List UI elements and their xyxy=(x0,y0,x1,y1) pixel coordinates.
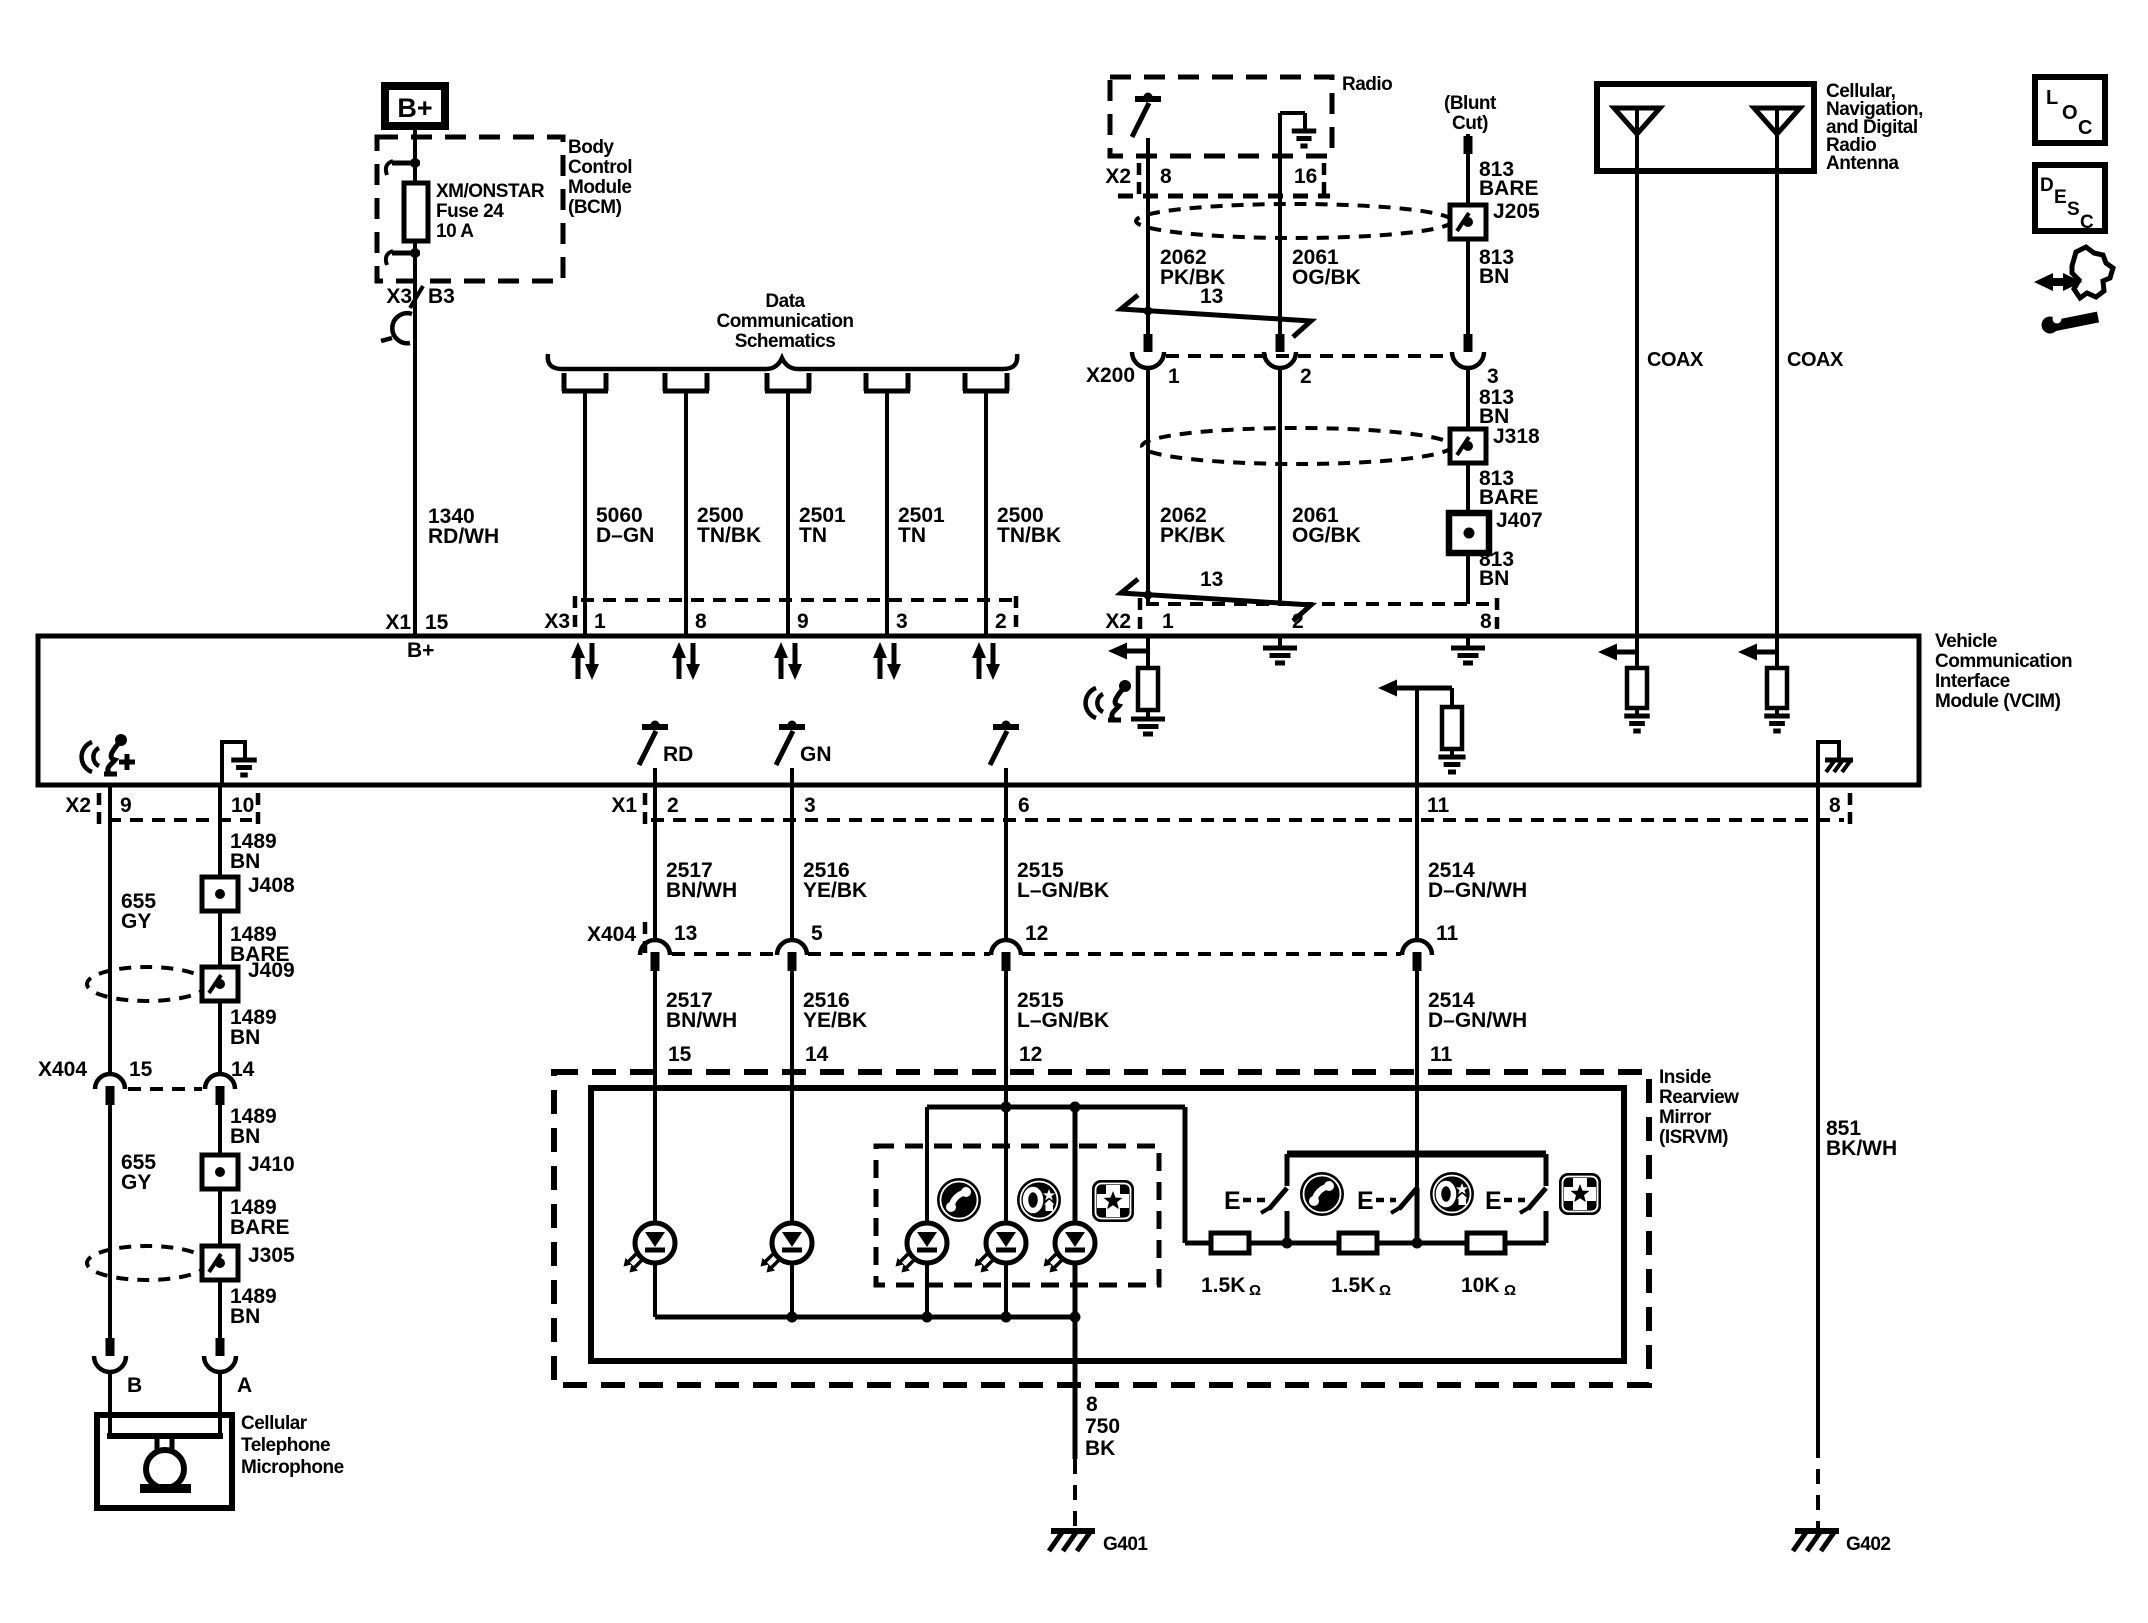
X2 label xyxy=(1105,610,1131,633)
Cellular Telephone Microphone box xyxy=(97,1415,232,1508)
icon cross 1 xyxy=(1092,1180,1134,1222)
indicator dashed box xyxy=(876,1146,1159,1285)
arrows in/out pin 3 xyxy=(873,642,901,680)
radio output symbol xyxy=(1132,93,1161,335)
splice ellipse 1 xyxy=(1136,204,1452,238)
Vehicle Communication Interface Module (VCIM) box xyxy=(38,636,1919,785)
X2 bottom label xyxy=(65,794,91,817)
radio pin 16 label xyxy=(1294,165,1317,188)
svg-text:BN/WH: BN/WH xyxy=(666,1009,737,1032)
icon feed right drop xyxy=(1073,1107,1078,1223)
wire 2516 YE/BK upper xyxy=(790,785,794,941)
wire 2517 BN/WH upper xyxy=(653,785,657,941)
VCIM pin X3-9 label xyxy=(797,610,809,633)
svg-text:(BCM): (BCM) xyxy=(568,197,622,218)
Body Control Module dashed box xyxy=(377,137,563,281)
antenna box xyxy=(1597,84,1814,171)
wire label 2501 TN xyxy=(898,504,945,547)
resistor 10K xyxy=(1467,1233,1505,1253)
svg-text:X3: X3 xyxy=(544,610,570,633)
switch stub 1 upper xyxy=(1285,1154,1290,1186)
wire 813 BARE blunt cut xyxy=(1466,134,1470,334)
wire X1-11 inside VCIM xyxy=(1415,688,1419,785)
navigate icon xyxy=(2034,247,2113,334)
svg-text:1.5K: 1.5K xyxy=(1331,1274,1375,1297)
pin 10 tick xyxy=(256,793,261,827)
wire 2500 TN/BK xyxy=(984,391,988,636)
wire 2514 D–GN/WH upper xyxy=(1415,785,1419,941)
svg-text:8: 8 xyxy=(1160,165,1172,188)
BCM label xyxy=(568,137,632,218)
label B xyxy=(127,1374,142,1397)
twisted leads 13 a xyxy=(1121,285,1311,337)
svg-text:Microphone: Microphone xyxy=(241,1457,344,1478)
X404 mid label xyxy=(587,923,636,946)
connector X404-12 xyxy=(991,940,1021,1074)
svg-text:9: 9 xyxy=(797,610,809,633)
wire from B+ to fuse xyxy=(413,126,417,166)
switch stub 3 upper xyxy=(1544,1154,1549,1186)
ISRVM pin 11 label xyxy=(1430,1043,1453,1066)
svg-text:TN: TN xyxy=(898,524,926,547)
LED 1 xyxy=(624,1223,676,1317)
wire label 813 BN c xyxy=(1479,548,1514,590)
LED 3 xyxy=(896,1223,948,1317)
connector X404-14 xyxy=(205,1074,235,1338)
svg-text:B3: B3 xyxy=(428,285,455,308)
svg-text:E: E xyxy=(1357,1187,1374,1215)
svg-text:J305: J305 xyxy=(248,1244,295,1267)
wire label 1489 BN c xyxy=(230,1105,277,1148)
VCIM ground near X1-11 xyxy=(1438,757,1465,772)
pin 9 label xyxy=(120,794,132,817)
VCIM ground at X2-2 xyxy=(1263,636,1297,663)
wire label 1340 RD/WH xyxy=(428,505,499,548)
arrows in/out pin 2 xyxy=(972,642,1000,680)
connector A xyxy=(204,1338,236,1418)
svg-text:X3: X3 xyxy=(386,285,412,308)
X3 dashed row xyxy=(581,598,1012,602)
svg-text:PK/BK: PK/BK xyxy=(1160,524,1225,547)
splice ellipse 2 xyxy=(1142,428,1452,464)
connector X404-15 xyxy=(95,1074,125,1338)
X200 dashed row xyxy=(1166,354,1450,358)
svg-text:J205: J205 xyxy=(1493,200,1540,223)
wire label 2061 OG/BK b xyxy=(1292,504,1361,547)
switch onstar xyxy=(1357,1187,1417,1215)
wire label 851 BK/WH xyxy=(1826,1117,1897,1160)
X3 tick xyxy=(573,596,578,631)
label G402 xyxy=(1846,1534,1890,1555)
svg-text:11: 11 xyxy=(1436,922,1459,945)
svg-text:B: B xyxy=(127,1374,142,1397)
data link connector fork at x686 xyxy=(663,373,709,391)
svg-text:X404: X404 xyxy=(38,1058,87,1081)
icon phone 1 xyxy=(937,1178,981,1222)
pin 8 tick xyxy=(1848,793,1853,827)
svg-text:2: 2 xyxy=(1300,365,1312,388)
svg-text:GY: GY xyxy=(121,1171,151,1194)
icon cross 2 xyxy=(1559,1173,1601,1215)
VCIM resistor at X2-1 xyxy=(1138,636,1158,719)
X3 connector label xyxy=(544,610,570,633)
VCIM pin X1 15 labels xyxy=(385,611,448,634)
X404 left dashed row xyxy=(128,1087,202,1091)
icon onstar 1 xyxy=(1017,1178,1061,1222)
wire label 813 BARE xyxy=(1479,158,1539,200)
svg-text:Ω: Ω xyxy=(1249,1282,1261,1299)
svg-text:J409: J409 xyxy=(248,959,295,982)
splice ellipse J409 xyxy=(87,967,207,1001)
wire label 1489 BN d xyxy=(230,1285,277,1328)
svg-text:13: 13 xyxy=(1200,568,1223,591)
LOC box xyxy=(2035,77,2105,143)
VCIM pin X3-1 label xyxy=(594,610,606,633)
ISRVM label xyxy=(1659,1067,1739,1148)
label J409 xyxy=(248,959,295,982)
svg-text:6: 6 xyxy=(1018,794,1030,817)
microphone symbol xyxy=(107,1418,223,1493)
BCM pin labels X3 B3 xyxy=(386,285,455,308)
svg-text:10 A: 10 A xyxy=(436,221,474,242)
svg-text:X2: X2 xyxy=(1105,165,1131,188)
VCIM phone icon xyxy=(1086,680,1131,720)
svg-text:A: A xyxy=(237,1374,252,1397)
VCIM arrow at X1-11 xyxy=(1378,680,1452,697)
X404 pin 12 label xyxy=(1025,922,1048,945)
ISRVM pin 14 label xyxy=(805,1043,829,1066)
splice J205 xyxy=(1450,205,1486,239)
wire label 813 BARE b xyxy=(1479,467,1539,509)
VCIM cellular voice arrow xyxy=(1108,643,1148,660)
svg-text:TN/BK: TN/BK xyxy=(697,524,761,547)
svg-text:TN: TN xyxy=(799,524,827,547)
svg-text:COAX: COAX xyxy=(1647,349,1704,371)
svg-text:13: 13 xyxy=(674,922,697,945)
label J318 xyxy=(1493,425,1540,448)
X404 pin 14 label xyxy=(231,1058,255,1081)
svg-text:D–GN: D–GN xyxy=(596,524,654,547)
label 10K xyxy=(1461,1274,1516,1299)
svg-text:BN: BN xyxy=(1479,567,1509,590)
radio pin 8 label xyxy=(1160,165,1172,188)
wire label 2061 OG/BK a xyxy=(1292,246,1361,289)
svg-text:B+: B+ xyxy=(397,93,432,123)
svg-text:2: 2 xyxy=(995,610,1007,633)
svg-text:9: 9 xyxy=(120,794,132,817)
svg-text:750: 750 xyxy=(1085,1415,1120,1438)
svg-text:8: 8 xyxy=(1480,610,1492,633)
svg-text:C: C xyxy=(2080,212,2094,233)
wire 2501 TN xyxy=(786,391,790,636)
svg-text:1: 1 xyxy=(1162,610,1174,633)
svg-text:15: 15 xyxy=(129,1058,153,1081)
svg-text:3: 3 xyxy=(896,610,908,633)
DESC box xyxy=(2035,165,2105,233)
svg-text:TN/BK: TN/BK xyxy=(997,524,1061,547)
svg-text:OG/BK: OG/BK xyxy=(1292,266,1361,289)
switch stub 1 lower xyxy=(1285,1211,1290,1243)
wire 1489 BN b xyxy=(218,1001,222,1075)
microphone label xyxy=(241,1413,344,1478)
svg-text:BN: BN xyxy=(230,1125,260,1148)
pin 11 label xyxy=(1427,794,1450,817)
svg-text:2: 2 xyxy=(1292,610,1304,633)
wire label 655 GY b xyxy=(121,1151,156,1194)
X2 tick xyxy=(1138,598,1143,632)
connector X404-11 xyxy=(1402,940,1432,1074)
svg-text:Radio: Radio xyxy=(1342,74,1392,95)
switch phone xyxy=(1224,1187,1287,1215)
VCIM internal connector GN xyxy=(776,721,832,786)
label A xyxy=(237,1374,252,1397)
wire 2501 TN xyxy=(885,391,889,636)
wire 2515 L–GN/BK upper xyxy=(1004,785,1008,941)
wire label 1489 BN a xyxy=(230,830,277,873)
svg-text:1: 1 xyxy=(594,610,606,633)
LED return bus xyxy=(655,1312,1081,1323)
svg-text:11: 11 xyxy=(1427,794,1450,817)
pin 8 label xyxy=(1829,794,1841,817)
data link connector fork at x585 xyxy=(562,373,608,391)
svg-text:BARE: BARE xyxy=(1479,177,1539,200)
switch stub 2 lower xyxy=(1415,1188,1420,1243)
wire into ISRVM 11 xyxy=(1415,1074,1419,1188)
svg-text:X1: X1 xyxy=(611,794,637,817)
svg-text:8: 8 xyxy=(1829,794,1841,817)
svg-text:14: 14 xyxy=(805,1043,829,1066)
icon onstar 2 xyxy=(1430,1172,1474,1216)
svg-text:XM/ONSTAR: XM/ONSTAR xyxy=(436,181,545,202)
svg-text:X2: X2 xyxy=(65,794,91,817)
icon feed bus xyxy=(927,1102,1185,1113)
svg-text:Fuse 24: Fuse 24 xyxy=(436,201,504,222)
Data Communication Schematics label xyxy=(716,291,853,352)
data link connector fork at x986 xyxy=(963,373,1009,391)
svg-text:BN: BN xyxy=(230,1026,260,1049)
svg-text:11: 11 xyxy=(1430,1043,1453,1066)
arrows in/out pin 1 xyxy=(571,642,599,680)
svg-text:(Blunt: (Blunt xyxy=(1444,93,1497,114)
data link connector fork at x887 xyxy=(864,373,910,391)
connector X200-2 xyxy=(1264,334,1296,604)
BCM connector hook xyxy=(381,313,412,343)
icon phone 2 xyxy=(1300,1172,1344,1216)
svg-text:J410: J410 xyxy=(248,1153,295,1176)
splice J410 xyxy=(202,1155,238,1189)
wire label 2514 D–GN/WH a xyxy=(1428,859,1527,902)
label J410 xyxy=(248,1153,295,1176)
wire 1489 BARE a xyxy=(218,911,222,967)
X3 tick right xyxy=(1014,596,1019,631)
svg-text:E: E xyxy=(1224,1187,1241,1215)
label B+ at pin 15 xyxy=(407,639,434,662)
ISRVM pin 15 label xyxy=(668,1043,692,1066)
svg-text:GN: GN xyxy=(800,743,832,766)
svg-text:BN/WH: BN/WH xyxy=(666,879,737,902)
VCIM coax resistor x1777 xyxy=(1767,636,1787,716)
resistor 1.5K a xyxy=(1211,1233,1249,1253)
svg-text:Vehicle: Vehicle xyxy=(1935,631,1997,652)
ground G402 xyxy=(1793,1531,1839,1551)
svg-text:10K: 10K xyxy=(1461,1274,1500,1297)
LED 2 xyxy=(761,1223,813,1317)
svg-text:15: 15 xyxy=(425,611,449,634)
wire label 2516 YE/BK a xyxy=(803,859,867,902)
BCM pin tick xyxy=(410,286,423,308)
X404 mid tick xyxy=(643,922,648,956)
wire label 1489 BARE a xyxy=(230,923,290,966)
svg-text:L: L xyxy=(2046,87,2058,109)
svg-text:D–GN/WH: D–GN/WH xyxy=(1428,1009,1527,1032)
COAX label 2 xyxy=(1787,349,1844,371)
brace xyxy=(548,354,1017,369)
wire label 813 BN b xyxy=(1479,386,1514,428)
wire label 2515 L–GN/BK b xyxy=(1017,989,1109,1032)
X200 pin labels xyxy=(1168,365,1499,388)
connector X200-1 xyxy=(1132,334,1164,604)
VCIM resistor near X1-11 xyxy=(1442,688,1462,757)
radio X2 tick xyxy=(1137,163,1142,197)
wire label 2517 BN/WH a xyxy=(666,859,737,902)
X2 bottom dashed row xyxy=(108,818,252,822)
twisted leads 13 b xyxy=(1121,568,1311,621)
splice J409 xyxy=(202,967,238,1001)
wire 1489 BN upper xyxy=(218,785,222,877)
VCIM microphone icon xyxy=(82,734,135,774)
X2 tick right xyxy=(1495,598,1500,632)
fuse F24 top contact xyxy=(386,158,420,175)
wire label 2500 TN/BK xyxy=(697,504,761,547)
svg-text:J318: J318 xyxy=(1493,425,1540,448)
svg-text:GY: GY xyxy=(121,910,151,933)
wire 2500 TN/BK xyxy=(684,391,688,636)
fuse XM/ONSTAR Fuse 24 10A body xyxy=(404,163,428,253)
ground G401 xyxy=(1049,1531,1095,1551)
arrows in/out pin 9 xyxy=(774,642,802,680)
wire label 750 BK xyxy=(1085,1415,1120,1460)
X404 pin 15 label xyxy=(129,1058,153,1081)
svg-text:1.5K: 1.5K xyxy=(1201,1274,1245,1297)
svg-text:14: 14 xyxy=(231,1058,255,1081)
svg-text:X2: X2 xyxy=(1105,610,1131,633)
switch top bus xyxy=(1287,1151,1546,1158)
pin 3 label xyxy=(804,794,816,817)
svg-text:Ω: Ω xyxy=(1379,1282,1391,1299)
svg-text:BARE: BARE xyxy=(1479,486,1539,509)
svg-text:5: 5 xyxy=(811,922,823,945)
X2 bottom tick xyxy=(97,793,102,827)
svg-text:YE/BK: YE/BK xyxy=(803,1009,867,1032)
svg-text:Interface: Interface xyxy=(1935,671,2010,692)
X404 pin 13 label xyxy=(674,922,697,945)
VCIM internal ground to pin 10 xyxy=(222,740,257,783)
svg-text:BN: BN xyxy=(230,850,260,873)
ISRVM inner box xyxy=(591,1088,1624,1361)
svg-text:O: O xyxy=(2062,102,2077,124)
wire label 2062 PK/BK b xyxy=(1160,504,1225,547)
svg-text:Telephone: Telephone xyxy=(241,1435,330,1456)
svg-text:Ω: Ω xyxy=(1504,1282,1516,1299)
LED 5 xyxy=(1044,1223,1096,1361)
X404 pin 5 label xyxy=(811,922,823,945)
wire label 2514 D–GN/WH b xyxy=(1428,989,1527,1032)
antenna symbol 2 xyxy=(1754,108,1800,636)
connector X200-3 xyxy=(1452,334,1484,604)
X2 pin labels xyxy=(1162,610,1492,633)
svg-text:J407: J407 xyxy=(1496,509,1543,532)
svg-text:Module: Module xyxy=(568,177,632,198)
svg-text:16: 16 xyxy=(1294,165,1317,188)
wire 750 BK xyxy=(1073,1356,1078,1528)
svg-text:13: 13 xyxy=(1200,285,1223,308)
svg-text:Cellular: Cellular xyxy=(241,1413,308,1434)
arrows in/out pin 8 xyxy=(672,642,700,680)
svg-text:3: 3 xyxy=(804,794,816,817)
wire label 1489 BARE b xyxy=(230,1196,290,1239)
connector X404-13 xyxy=(640,940,670,1074)
pin 2 label xyxy=(667,794,679,817)
X200 label xyxy=(1086,364,1135,387)
VCIM coax arrow x1637 xyxy=(1598,644,1637,661)
svg-text:YE/BK: YE/BK xyxy=(803,879,867,902)
svg-text:Mirror: Mirror xyxy=(1659,1107,1712,1128)
svg-text:L–GN/BK: L–GN/BK xyxy=(1017,879,1109,902)
label J305 xyxy=(248,1244,295,1267)
X404 mid dashed row xyxy=(672,952,1401,956)
wire label 2500 TN/BK xyxy=(997,504,1061,547)
svg-text:Data: Data xyxy=(765,291,805,312)
splice J408 xyxy=(202,877,238,911)
X1 bottom label xyxy=(611,794,637,817)
wire label 2062 PK/BK a xyxy=(1160,246,1225,289)
LED 4 xyxy=(975,1223,1027,1317)
label G401 xyxy=(1103,1534,1148,1555)
svg-text:G402: G402 xyxy=(1846,1534,1890,1555)
svg-text:RD/WH: RD/WH xyxy=(428,525,499,548)
svg-text:Control: Control xyxy=(568,157,632,178)
svg-text:12: 12 xyxy=(1025,922,1048,945)
svg-text:Cut): Cut) xyxy=(1452,113,1488,134)
VCIM ground at X2-8 xyxy=(1451,636,1485,663)
wire label 655 GY a xyxy=(121,890,156,933)
label 1.5K a xyxy=(1201,1274,1261,1299)
X404 left label xyxy=(38,1058,87,1081)
VCIM coax resistor x1637 xyxy=(1627,636,1647,716)
wire 655 GY upper xyxy=(108,785,112,1075)
radio X2 tick right xyxy=(1322,163,1327,197)
VCIM coax ground x1637 xyxy=(1624,716,1650,731)
svg-text:12: 12 xyxy=(1019,1043,1042,1066)
wire into ISRVM 12 xyxy=(1004,1074,1008,1223)
resistor 1.5K b xyxy=(1339,1233,1377,1253)
battery feed B+ box xyxy=(385,86,445,126)
svg-text:X200: X200 xyxy=(1086,364,1135,387)
svg-text:C: C xyxy=(2078,117,2092,139)
svg-text:10: 10 xyxy=(231,794,254,817)
wire 851 BK/WH xyxy=(1816,785,1820,1528)
svg-text:1: 1 xyxy=(1168,365,1180,388)
svg-text:L–GN/BK: L–GN/BK xyxy=(1017,1009,1109,1032)
svg-text:Module (VCIM): Module (VCIM) xyxy=(1935,691,2061,712)
Inside Rearview Mirror dashed box xyxy=(554,1072,1649,1385)
label J205 xyxy=(1493,200,1540,223)
VCIM coax ground x1777 xyxy=(1764,716,1790,731)
VCIM pin X3-8 label xyxy=(695,610,707,633)
svg-text:BARE: BARE xyxy=(230,1216,290,1239)
svg-text:S: S xyxy=(2067,199,2079,220)
pin 10 label xyxy=(231,794,254,817)
